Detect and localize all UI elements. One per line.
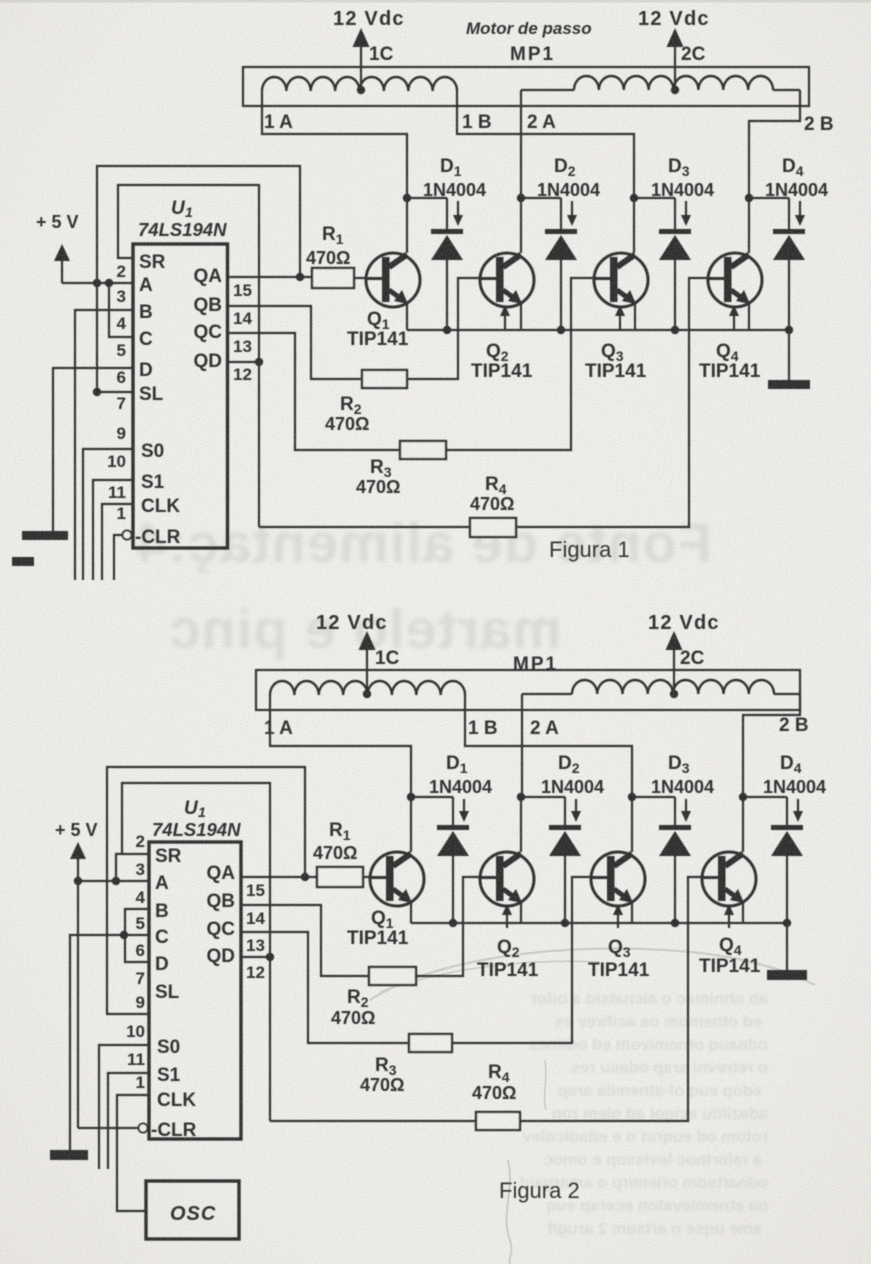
wire wire D2 anode to rail fig2 (564, 856, 566, 923)
wire wire collector riser Q1 fig2 (410, 797, 412, 852)
resistor R4 470 ohm fig2 (476, 1112, 520, 1130)
supply arrow 12 Vdc (left) (353, 28, 370, 47)
wire wire QB to R2 (228, 306, 363, 379)
wire wire pin CLK down (102, 504, 133, 580)
wire wire junction to D2 cathode fig2 (521, 796, 565, 798)
wire wire 1A to Q1 collector (262, 91, 407, 198)
wire wire winding2 left lead (521, 89, 574, 91)
ground symbol (right of Figura 2) (767, 970, 807, 980)
pointer arrow to D2 fig2 (571, 799, 581, 822)
pointer arrow to Q3 fig2 (613, 904, 623, 928)
wire wire collector riser Q1 (406, 198, 408, 253)
wire wire Q4 emitter to rail (748, 304, 750, 330)
pointer arrow to Q4 fig2 (724, 904, 734, 928)
resistor R2 470 ohm (362, 370, 407, 388)
node rail junction D3 fig2 (671, 919, 679, 927)
wire wire collector riser Q3 (633, 198, 635, 253)
node junction QA / loop (296, 273, 304, 281)
wire wire loop QA to pin A (97, 166, 300, 283)
pointer arrow to D1 (453, 201, 463, 226)
resistor R3 470 ohm fig2 (409, 1034, 452, 1052)
wire wire pin QD to loop (228, 361, 260, 363)
wire wire D3 anode to rail fig2 (674, 856, 676, 923)
ground symbol (right of Figura 1) (768, 380, 810, 389)
node collector Q4 / D4 junction fig2 (739, 793, 747, 801)
supply arrow 12 Vdc right fig2 (666, 631, 683, 650)
resistor R1 470 ohm fig2 (317, 867, 363, 887)
node +5V junction on pin A wire fig2 (74, 877, 82, 885)
faint pencil smudges (370, 949, 815, 1264)
wire wire D1 anode to emitter rail (446, 260, 448, 330)
wire wire D2 anode to emitter rail (560, 260, 562, 330)
transistor Q3 TIP141 (594, 253, 648, 307)
pointer arrow to Q2 (500, 305, 510, 331)
inductor winding 2 of MP1 fig2 (572, 680, 774, 694)
wire wire pin S1 down fig2 (108, 1073, 149, 1169)
wire wire R2 to Q2 base fig2 (416, 877, 480, 976)
inverting bubble at pin -CLR (123, 531, 132, 540)
pointer arrow to D3 fig2 (681, 799, 691, 822)
pointer arrow to D2 (567, 201, 577, 226)
diode D3 1N4004 fig2 (659, 797, 691, 856)
faint bleed-through paragraph column (mirrored) (520, 990, 768, 1238)
node 1C center tap junction (357, 86, 365, 94)
wire wire QC to R3 (228, 333, 401, 450)
node collector Q1 / D1 junction (403, 194, 411, 202)
node collector Q1 / D1 junction fig2 (407, 793, 415, 801)
diode D3 1N4004 (659, 198, 691, 260)
pointer arrow to D4 (795, 201, 805, 226)
supply arrow 12 Vdc left fig2 (359, 631, 376, 650)
wire wire pin -CLR to +5V rail (78, 1127, 138, 1129)
ground symbol bar (left of U1) (22, 531, 68, 540)
node rail junction D1 anode (443, 326, 451, 334)
node junction QD pin 12 (255, 358, 263, 366)
node rail junction D2 fig2 (561, 919, 569, 927)
wire wire 1A to Q1 collector fig2 (270, 695, 411, 797)
wire wire rail to ground fig2 (786, 923, 788, 970)
wire wire pin S0 down (83, 449, 133, 580)
wire wire junction to D3 cathode fig2 (632, 796, 675, 798)
stepper motor MP1 outline box (Figura 2) (256, 670, 800, 710)
pointer arrow to Q2 fig2 (502, 904, 512, 928)
ground symbol bar 2 (left of U1) (12, 557, 34, 566)
wire wire R3 to Q3 base (446, 278, 594, 450)
pointer arrow to D4 fig2 (793, 799, 803, 822)
wire wire pin CLK to OSC (117, 1095, 149, 1211)
node 1C center tap junction fig2 (363, 690, 371, 698)
node junction at pin SL (93, 388, 101, 396)
supply arrow +5V (Figura 1) (54, 244, 70, 283)
wire wire junction to D1 cathode fig2 (411, 796, 453, 798)
node rail junction D1 fig2 (449, 919, 457, 927)
inverting bubble at pin -CLR fig2 (139, 1124, 148, 1133)
node junction pin C tie fig2 (120, 931, 128, 939)
wire wire loop QA to pin 9 fig2 (107, 767, 305, 1014)
wire wire Q4 emitter to rail fig2 (742, 903, 744, 923)
wire wire Q3 emitter to rail (634, 304, 636, 330)
wire wire junction to D1 cathode (407, 197, 447, 199)
wire wire pin C tie to +5V node (109, 283, 133, 337)
wire wire Q2 emitter to rail fig2 (520, 903, 522, 923)
supply arrow +5V (Figura 2) (70, 842, 86, 881)
wire wire pin B down (75, 310, 133, 580)
node collector Q3 / D3 junction (630, 194, 638, 202)
wire wire winding2 right lead (773, 89, 800, 91)
transistor Q1 TIP141 (366, 253, 420, 307)
wire wire center tap 1C to 12Vdc (360, 45, 362, 90)
wire wire junction to D2 cathode (521, 197, 561, 199)
oscillator block OSC (146, 1181, 239, 1239)
pointer arrow to D1 fig2 (459, 799, 469, 822)
node rail junction D4 fig2 (783, 919, 791, 927)
wire wire +5V to pin A (62, 282, 133, 284)
node rail junction D3 anode (671, 326, 679, 334)
diode D1 1N4004 fig2 (437, 797, 469, 856)
wire wire QA to R1 (228, 276, 313, 278)
wire wire junction to D3 cathode (634, 197, 675, 199)
wire wire junction to D4 cathode (749, 197, 789, 199)
wire wire collector riser Q4 fig2 (742, 797, 744, 852)
ground symbol bar (left of U1 fig2) (50, 1150, 88, 1160)
wire wire center tap 2C to 12Vdc fig2 (673, 648, 675, 694)
wire wire QC to R3 fig2 (241, 932, 409, 1043)
op IC U1 74LS194N body (133, 244, 228, 548)
diode D4 1N4004 (773, 198, 805, 260)
resistor R1 470 ohm (312, 268, 354, 288)
node loop junction on pin A wire fig2 (112, 877, 120, 885)
node collector Q3 / D3 junction fig2 (628, 793, 636, 801)
wire wire center tap 1C to 12Vdc fig2 (366, 648, 368, 694)
wire wire pin S1 down (93, 480, 133, 580)
wire wire R3 to Q3 base fig2 (452, 877, 591, 1043)
inductor winding 2 of MP1 (574, 76, 773, 90)
wire wire pin SL tie to +5V node (97, 283, 133, 392)
wire wire R2 to Q2 base (407, 278, 480, 379)
pointer arrow to Q4 (729, 305, 739, 331)
wire wire pin C to ground (70, 935, 149, 1150)
node rail junction D4 anode (785, 326, 793, 334)
transistor Q2 TIP141 (480, 253, 534, 307)
supply arrow 12 Vdc (right) (667, 28, 684, 47)
wire wire collector riser Q3 fig2 (631, 797, 633, 852)
wire wire center tap 2C to 12Vdc (674, 45, 676, 90)
wire wire R4 from loop (259, 526, 470, 528)
wire wire rail to ground (788, 330, 790, 380)
inductor winding 1 of MP1 fig2 (270, 681, 465, 695)
wire wire R4 to Q4 base (516, 278, 708, 527)
wire wire D1 anode to rail fig2 (452, 856, 454, 923)
wire wire pin SR tie (116, 854, 149, 881)
wire wire Q1 emitter to rail (406, 304, 408, 330)
op IC U1 74LS194N body (Figura 2) (149, 842, 241, 1139)
wire wire Q3 emitter to rail fig2 (631, 903, 633, 923)
wire wire common emitter rail (407, 329, 789, 331)
wire wire 1B to Q3 collector fig2 (465, 695, 632, 797)
node collector Q2 / D2 junction fig2 (517, 793, 525, 801)
wire wire Q2 emitter to rail (520, 304, 522, 330)
wire wire QB to R2 fig2 (241, 905, 369, 976)
transistor Q2 TIP141 fig2 (480, 852, 534, 906)
diode D1 1N4004 (431, 198, 463, 260)
resistor R4 470 ohm (470, 518, 516, 537)
wire wire pin A from +5V (78, 880, 149, 882)
wire wire R4 to Q4 base fig2 (520, 877, 702, 1121)
wire wire junction to D4 cathode fig2 (743, 796, 787, 798)
diode D4 1N4004 fig2 (771, 797, 803, 856)
faint top edge scan line (0, 0, 871, 3)
wire wire 2A to Q2 collector fig2 (521, 694, 523, 797)
wire wire R1 to Q1 base (354, 277, 366, 279)
wire wire winding2 left lead fig2 (522, 693, 572, 695)
wire wire pin QD to loop fig2 (241, 956, 270, 958)
wire wire collector riser Q4 (748, 198, 750, 253)
inductor winding 1 of MP1 (262, 77, 457, 91)
node junction C riser on pin A wire (105, 279, 113, 287)
resistor R3 470 ohm (400, 441, 446, 459)
node 2C center tap junction fig2 (670, 690, 678, 698)
faint bleed-through heading from reverse page (mirrored) (135, 511, 712, 660)
wire wire QA to R1 fig2 (241, 876, 317, 878)
node junction QA fig2 (301, 873, 309, 881)
wire wire 2A to Q2 collector (520, 90, 522, 198)
wire wire pin D to ground (53, 368, 133, 531)
pointer arrow to D3 (681, 201, 691, 226)
wire wire loop QD to pin SR fig2 (122, 783, 270, 1121)
stepper motor MP1 outline box (243, 67, 809, 106)
wire wire Q1 emitter to rail fig2 (410, 903, 412, 923)
wire wire 2B to Q4 collector (749, 90, 800, 198)
node collector Q4 / D4 junction (745, 194, 753, 202)
node junction QD pin 12 fig2 (266, 953, 274, 961)
wire wire R4 from loop fig2 (270, 1120, 476, 1122)
wire wire loop QD to pin SR (118, 185, 259, 527)
wire wire winding2 right lead fig2 (774, 693, 800, 695)
wire wire 1B to Q3 collector (457, 91, 634, 198)
wire wire collector riser Q2 (520, 198, 522, 253)
transistor Q4 TIP141 (708, 253, 762, 307)
pointer arrow to Q3 (615, 305, 625, 331)
node junction +5V/SL riser on pin A wire (93, 279, 101, 287)
wire wire R1 to Q1 base fig2 (363, 876, 370, 878)
diode D2 1N4004 fig2 (549, 797, 581, 856)
transistor Q1 TIP141 fig2 (370, 852, 424, 906)
transistor Q3 TIP141 fig2 (591, 852, 645, 906)
wire wire D3 anode to emitter rail (674, 260, 676, 330)
node rail junction D2 anode (557, 326, 565, 334)
transistor Q4 TIP141 fig2 (702, 852, 756, 906)
node collector Q2 / D2 junction (517, 194, 525, 202)
diode D2 1N4004 (545, 198, 577, 260)
wire wire pin S0 down fig2 (99, 1045, 149, 1169)
wire wire collector riser Q2 fig2 (520, 797, 522, 852)
wire wire common emitter rail fig2 (411, 922, 787, 924)
wire wire D4 anode to emitter rail (788, 260, 790, 330)
wire wire +5V rail down to -CLR (77, 881, 79, 1128)
wire wire pin -CLR down (114, 535, 122, 580)
resistor R2 470 ohm fig2 (369, 967, 416, 985)
node 2C center tap junction (671, 86, 679, 94)
wire wire pins B C D tie (125, 909, 149, 962)
wire wire 2B to Q4 collector fig2 (743, 694, 800, 797)
wire wire D4 anode to rail fig2 (786, 856, 788, 923)
